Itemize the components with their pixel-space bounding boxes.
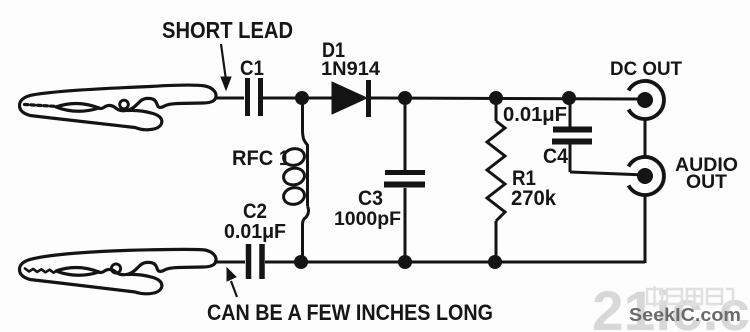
svg-text:CAN BE A FEW INCHES LONG: CAN BE A FEW INCHES LONG xyxy=(207,300,493,325)
svg-text:SeekIC.com: SeekIC.com xyxy=(629,304,741,325)
capacitor C2 xyxy=(249,244,263,279)
svg-text:0.01μF: 0.01μF xyxy=(224,221,286,243)
svg-text:0.01μF: 0.01μF xyxy=(503,104,567,126)
capacitor C1 xyxy=(248,78,261,116)
svg-text:270k: 270k xyxy=(511,187,556,210)
svg-text:1000pF: 1000pF xyxy=(334,208,401,230)
wire bottom clip to C2 xyxy=(214,261,245,264)
wire C1 to D1 xyxy=(263,97,333,100)
short lead arrow xyxy=(221,44,231,90)
wire AUDIO OUT down to bottom rail xyxy=(644,195,647,263)
node E junction RFC bottom xyxy=(294,255,308,269)
watermark chinese blocks xyxy=(647,286,733,307)
wire D1 to DC OUT xyxy=(371,98,645,99)
capacitor C4 xyxy=(552,98,592,172)
node F junction C3 bottom xyxy=(398,255,412,269)
node C junction R1 top xyxy=(489,91,503,105)
svg-text:OUT: OUT xyxy=(686,172,727,193)
resistor R1 xyxy=(487,98,505,262)
connector DC OUT xyxy=(629,81,664,119)
svg-text:SHORT LEAD: SHORT LEAD xyxy=(162,17,293,43)
capacitor C3 xyxy=(384,98,425,262)
arrow CAN BE xyxy=(227,268,237,297)
node G junction R1 bottom xyxy=(488,255,502,269)
wire DC OUT to AUDIO OUT xyxy=(644,119,647,157)
svg-text:C2: C2 xyxy=(243,200,267,223)
wire top-left clip to C1 xyxy=(216,97,244,100)
svg-text:DC OUT: DC OUT xyxy=(610,59,682,80)
diode D1 xyxy=(332,80,369,117)
node A junction C1/RFC xyxy=(295,91,309,105)
svg-text:1N914: 1N914 xyxy=(321,59,380,80)
svg-text:C1: C1 xyxy=(240,57,264,80)
node B junction D1/C3 xyxy=(398,91,412,105)
connector AUDIO OUT xyxy=(629,157,664,195)
svg-text:RFC 1: RFC 1 xyxy=(232,147,290,170)
inductor RFC1 xyxy=(282,104,308,262)
wire C4 to AUDIO OUT xyxy=(570,172,645,175)
alligator clip bottom xyxy=(20,249,217,294)
svg-text:C3: C3 xyxy=(358,187,383,210)
alligator clip top xyxy=(20,85,217,130)
svg-text:C4: C4 xyxy=(543,145,568,168)
node D junction C4 top xyxy=(562,91,576,105)
wire bottom rail xyxy=(265,261,645,264)
